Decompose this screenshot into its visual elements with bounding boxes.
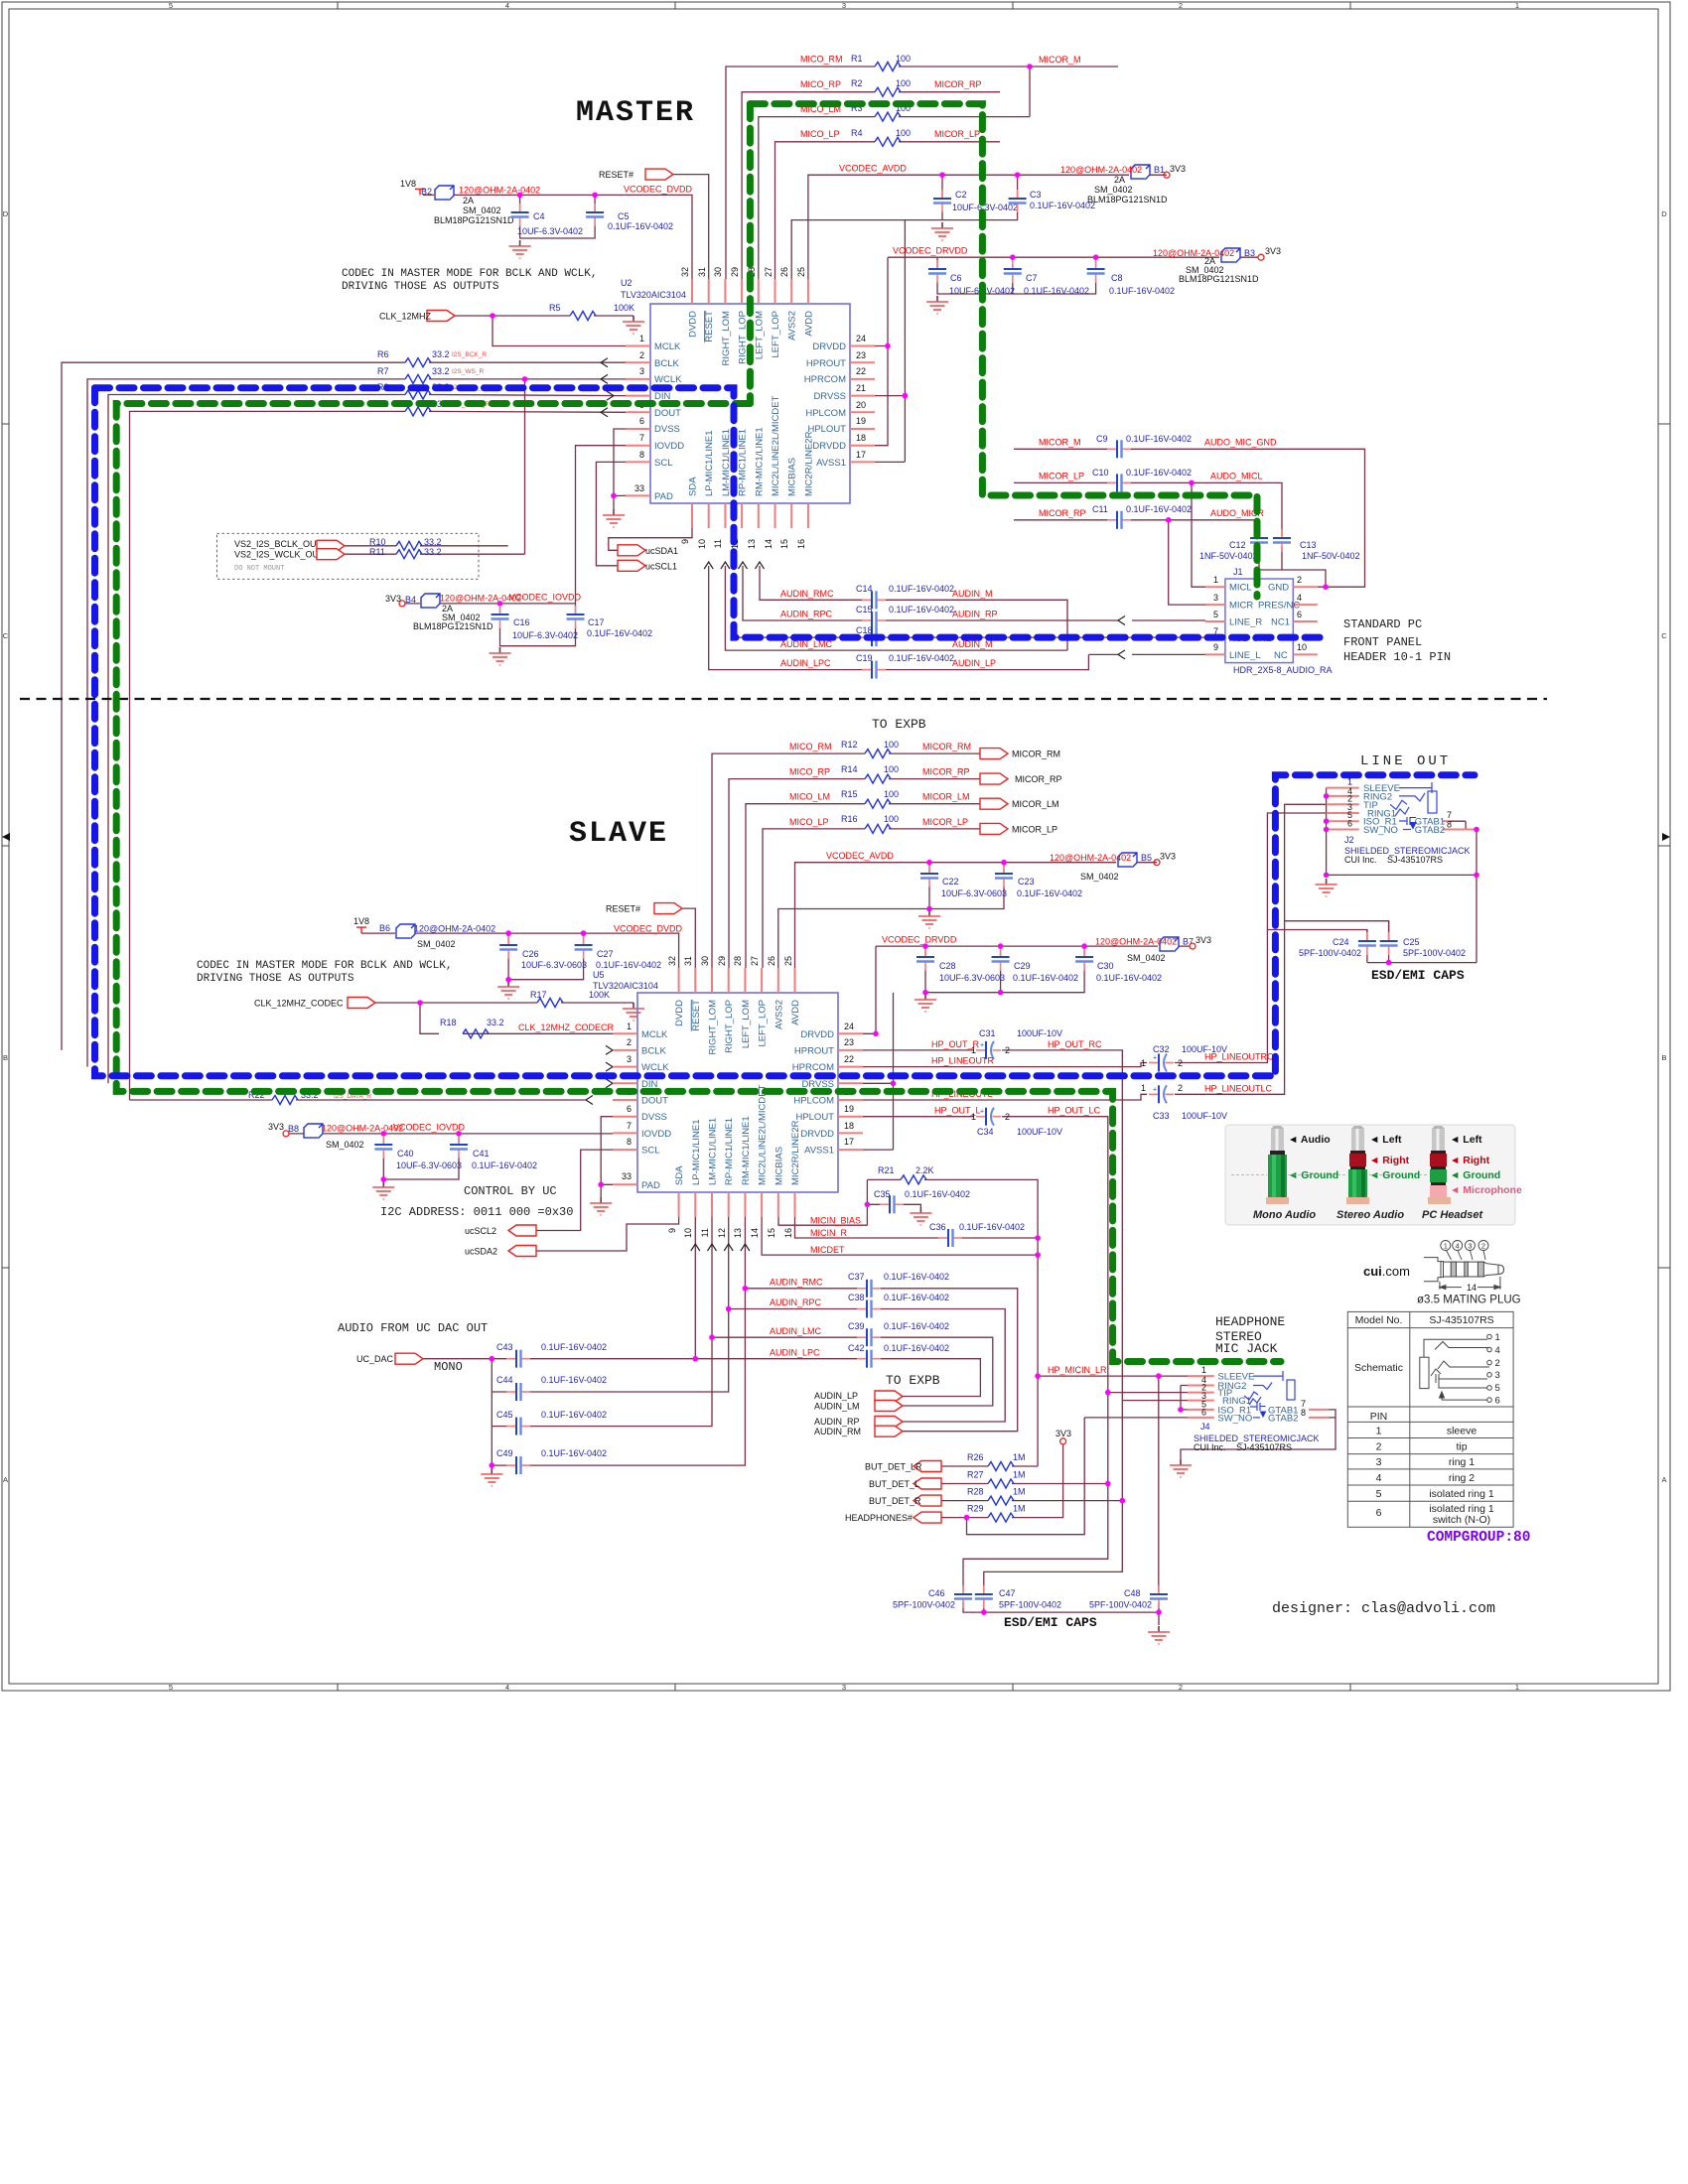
wire R10 R11 VS2 — [342, 546, 525, 554]
svg-text:C48: C48 — [1124, 1588, 1141, 1598]
resistor R3 — [875, 112, 901, 121]
svg-text:120@OHM-2A-0402: 120@OHM-2A-0402 — [1095, 937, 1177, 947]
sheet border frame — [2, 2, 1670, 1691]
svg-text:DVDD: DVDD — [688, 311, 699, 338]
svg-text:16: 16 — [796, 539, 806, 549]
svg-text:5: 5 — [1213, 610, 1218, 619]
capacitor C29 — [992, 948, 1010, 971]
svg-text:R15: R15 — [841, 789, 858, 799]
svg-text:C28: C28 — [939, 961, 956, 971]
svg-text:100UF-10V: 100UF-10V — [1017, 1028, 1062, 1038]
svg-text:0.1UF-16V-0402: 0.1UF-16V-0402 — [541, 1410, 607, 1420]
svg-text:R10: R10 — [369, 537, 386, 547]
svg-text:BCLK: BCLK — [654, 358, 679, 369]
svg-text:LINE OUT: LINE OUT — [1360, 753, 1451, 769]
svg-text:C29: C29 — [1014, 961, 1031, 971]
capacitor C12 — [1250, 529, 1268, 552]
svg-text:FRONT PANEL: FRONT PANEL — [1343, 635, 1422, 649]
jack photos panel — [1225, 1125, 1522, 1225]
svg-text:22: 22 — [844, 1054, 854, 1064]
svg-text:MICOR_RP: MICOR_RP — [1015, 774, 1062, 784]
svg-text:C4: C4 — [533, 211, 545, 221]
svg-text:Mono Audio: Mono Audio — [1253, 1209, 1316, 1221]
svg-text:BCLK: BCLK — [641, 1046, 666, 1057]
svg-text:SM_0402: SM_0402 — [326, 1140, 364, 1150]
svg-text:R28: R28 — [967, 1487, 984, 1497]
svg-text:SM_0402: SM_0402 — [1080, 872, 1119, 882]
svg-text:MICOR_LP: MICOR_LP — [922, 817, 968, 827]
svg-text:5PF-100V-0402: 5PF-100V-0402 — [1089, 1600, 1152, 1610]
svg-text:B2: B2 — [421, 187, 432, 197]
svg-text:MICOR_RP: MICOR_RP — [922, 767, 970, 777]
wire VCODEC_DVDD slave — [361, 933, 679, 968]
svg-text:12: 12 — [717, 1228, 727, 1238]
svg-text:4: 4 — [1456, 1241, 1460, 1250]
svg-text:21: 21 — [856, 383, 866, 393]
svg-text:C40: C40 — [397, 1149, 414, 1159]
svg-text:4: 4 — [505, 1, 509, 10]
svg-text:DRVDD: DRVDD — [800, 1029, 834, 1040]
wire VCODEC_AVDD slave — [795, 863, 1158, 968]
cui mating plug drawing — [1424, 1258, 1504, 1290]
svg-text:C44: C44 — [496, 1375, 513, 1385]
svg-text:2: 2 — [1297, 575, 1302, 585]
svg-text:TLV320AIC3104: TLV320AIC3104 — [621, 290, 686, 300]
wire C28 C29 C30 legs — [863, 946, 1084, 1150]
svg-text:31: 31 — [697, 267, 707, 277]
svg-text:3V3: 3V3 — [1265, 246, 1281, 256]
port RESET# slave — [654, 903, 682, 914]
capacitor C16 — [492, 606, 509, 628]
svg-text:2: 2 — [1179, 1683, 1183, 1692]
svg-text:VCODEC_DRVDD: VCODEC_DRVDD — [882, 935, 957, 945]
ferrite bead B1 — [1131, 165, 1150, 179]
svg-text:1NF-50V-0402: 1NF-50V-0402 — [1302, 551, 1360, 561]
svg-text:B5: B5 — [1141, 853, 1152, 863]
svg-text:19: 19 — [844, 1104, 854, 1114]
port ucSDA1 — [618, 545, 645, 556]
svg-text:MASTER: MASTER — [576, 96, 695, 130]
svg-text:ESD/EMI CAPS: ESD/EMI CAPS — [1004, 1615, 1097, 1630]
svg-text:◄ Right: ◄ Right — [1450, 1155, 1490, 1166]
svg-text:0.1UF-16V-0402: 0.1UF-16V-0402 — [889, 605, 954, 614]
junction dots slave — [873, 1031, 879, 1037]
port CLK_12MHZ_CODEC — [348, 998, 375, 1009]
svg-text:3: 3 — [627, 1054, 632, 1064]
svg-text:NC: NC — [1274, 650, 1288, 661]
svg-text:0.1UF-16V-0402: 0.1UF-16V-0402 — [884, 1321, 949, 1331]
svg-text:SCL: SCL — [641, 1146, 659, 1157]
svg-text:RIGHT_LOP: RIGHT_LOP — [724, 1000, 735, 1053]
wire CLK_12MHZ to R5 and MCLK — [455, 316, 633, 346]
wire UC_DAC C43 row AUDIN_LPC C42 — [423, 1359, 980, 1397]
wire HP_MICIN_LR row — [1038, 1376, 1188, 1592]
capacitor C38 — [857, 1300, 881, 1318]
svg-text:C2: C2 — [955, 190, 967, 200]
svg-text:1: 1 — [971, 1045, 976, 1055]
svg-text:MICO_RP: MICO_RP — [789, 767, 830, 777]
svg-text:◄ Right: ◄ Right — [1369, 1155, 1410, 1166]
svg-text:4: 4 — [1495, 1345, 1500, 1356]
svg-text:SJ-435107RS: SJ-435107RS — [1387, 855, 1443, 865]
svg-text:33: 33 — [622, 1171, 632, 1181]
svg-text:C37: C37 — [848, 1272, 865, 1282]
svg-text:18: 18 — [844, 1121, 854, 1131]
svg-text:10UF-6.3V-0402: 10UF-6.3V-0402 — [517, 226, 583, 236]
svg-text:8: 8 — [639, 450, 644, 460]
svg-text:120@OHM-2A-0402: 120@OHM-2A-0402 — [414, 924, 495, 934]
svg-text:6: 6 — [639, 416, 644, 426]
svg-text:13: 13 — [747, 539, 757, 549]
svg-text:0.1UF-16V-0402: 0.1UF-16V-0402 — [884, 1293, 949, 1302]
svg-text:C31: C31 — [979, 1028, 996, 1038]
svg-text:0.1UF-16V-0402: 0.1UF-16V-0402 — [1030, 201, 1095, 210]
svg-text:AVSS2: AVSS2 — [787, 311, 798, 341]
svg-text:0.1UF-16V-0402: 0.1UF-16V-0402 — [541, 1342, 607, 1352]
svg-text:0.1UF-16V-0402: 0.1UF-16V-0402 — [1126, 468, 1192, 478]
svg-text:120@OHM-2A-0402: 120@OHM-2A-0402 — [1060, 165, 1142, 175]
svg-text:GTAB2: GTAB2 — [1415, 825, 1445, 836]
wire blue dashed route master — [95, 388, 1325, 637]
svg-text:11: 11 — [713, 539, 723, 548]
svg-text:MICO_RM: MICO_RM — [789, 742, 832, 751]
svg-text:0.1UF-16V-0402: 0.1UF-16V-0402 — [541, 1448, 607, 1458]
svg-text:6: 6 — [627, 1104, 632, 1114]
capacitor C6 — [928, 260, 946, 283]
svg-text:R4: R4 — [851, 128, 863, 138]
svg-text:7: 7 — [627, 1121, 632, 1131]
svg-text:MIC JACK: MIC JACK — [1215, 1341, 1278, 1356]
svg-text:◄ Audio: ◄ Audio — [1288, 1134, 1331, 1146]
svg-text:120@OHM-2A-0402: 120@OHM-2A-0402 — [1153, 248, 1234, 258]
svg-text:3: 3 — [1376, 1456, 1382, 1468]
svg-text:C38: C38 — [848, 1293, 865, 1302]
svg-text:C33: C33 — [1153, 1111, 1170, 1121]
svg-text:1: 1 — [1201, 1365, 1206, 1375]
svg-text:ø3.5 MATING PLUG: ø3.5 MATING PLUG — [1417, 1295, 1521, 1306]
svg-text:2: 2 — [627, 1037, 632, 1047]
svg-text:AUDIN_LM: AUDIN_LM — [814, 1402, 860, 1412]
svg-text:VCODEC_DVDD: VCODEC_DVDD — [624, 185, 693, 195]
wire DRVSS AVSS1 tie — [875, 396, 905, 463]
resistor R4 — [875, 137, 901, 146]
svg-text:1M: 1M — [1013, 1470, 1026, 1480]
svg-text:MICOR_RP: MICOR_RP — [934, 79, 982, 89]
svg-text:0.1UF-16V-0402: 0.1UF-16V-0402 — [1013, 973, 1078, 983]
wire R7 row WCLK — [87, 379, 626, 1067]
svg-text:25: 25 — [783, 956, 793, 966]
resistor R5 — [570, 312, 596, 321]
svg-text:GTAB2: GTAB2 — [1268, 1413, 1298, 1424]
svg-text:C13: C13 — [1300, 540, 1317, 550]
ground C6 — [926, 296, 948, 314]
wire C26 C27 legs — [508, 933, 584, 980]
svg-text:26: 26 — [779, 267, 789, 277]
resistor R12 — [865, 750, 891, 758]
wire VCODEC_DRVDD slave — [863, 946, 1190, 1033]
svg-text:CLK_12MHZ_CODEC: CLK_12MHZ_CODEC — [254, 999, 344, 1009]
svg-text:24: 24 — [856, 334, 866, 343]
divider dashed line — [20, 698, 1547, 700]
svg-text:9: 9 — [667, 1228, 677, 1233]
svg-text:sleeve: sleeve — [1447, 1426, 1477, 1437]
ferrite bead B3 — [1221, 248, 1240, 262]
capacitor C3 — [1009, 190, 1027, 212]
svg-text:3V3: 3V3 — [385, 594, 401, 604]
ground C22 — [918, 910, 940, 928]
wire TIP RING1 drop to R27 R28 — [963, 1393, 1122, 1590]
svg-text:5PF-100V-0402: 5PF-100V-0402 — [1299, 948, 1361, 958]
svg-text:R17: R17 — [530, 990, 547, 1000]
svg-text:20: 20 — [856, 400, 866, 410]
capacitor C19 — [862, 661, 886, 679]
resistor R21 — [901, 1175, 926, 1184]
svg-text:33.2: 33.2 — [432, 349, 450, 359]
svg-text:C: C — [3, 631, 9, 640]
svg-text:HPRCOM: HPRCOM — [804, 374, 846, 385]
svg-text:MICO_RM: MICO_RM — [800, 55, 843, 65]
svg-text:0.1UF-16V-0402: 0.1UF-16V-0402 — [905, 1189, 970, 1199]
svg-text:1: 1 — [627, 1022, 632, 1031]
svg-text:C45: C45 — [496, 1410, 513, 1420]
svg-text:2: 2 — [1178, 1083, 1183, 1093]
svg-text:R7: R7 — [377, 366, 389, 376]
svg-text:CODEC IN MASTER MODE FOR BCLK: CODEC IN MASTER MODE FOR BCLK AND WCLK, — [342, 268, 597, 280]
svg-text:BLM18PG121SN1D: BLM18PG121SN1D — [434, 215, 514, 225]
svg-text:B: B — [3, 1053, 8, 1062]
svg-text:PC Headset: PC Headset — [1422, 1209, 1483, 1221]
svg-text:LEFT_LOP: LEFT_LOP — [758, 1000, 769, 1047]
svg-text:AVSS2: AVSS2 — [774, 1000, 784, 1029]
wire VCODEC_IOVDD slave — [289, 1133, 613, 1135]
svg-text:3: 3 — [639, 366, 644, 376]
svg-text:MICO_RP: MICO_RP — [800, 79, 841, 89]
svg-text:designer: clas@advoli.com: designer: clas@advoli.com — [1272, 1600, 1495, 1617]
svg-text:14: 14 — [1467, 1283, 1477, 1293]
model table — [1347, 1311, 1513, 1527]
svg-text:C23: C23 — [1018, 877, 1035, 887]
wire VCODEC_IOVDD row — [405, 603, 576, 605]
svg-text:3: 3 — [1468, 1241, 1472, 1250]
capacitor C46 — [954, 1585, 972, 1608]
svg-text:AVDD: AVDD — [790, 1000, 801, 1025]
wire RESET# to pin31 — [673, 175, 709, 279]
svg-text:0.1UF-16V-0402: 0.1UF-16V-0402 — [472, 1160, 537, 1170]
transistor U5 slave codec IC box — [593, 956, 863, 1238]
svg-text:LINE_L: LINE_L — [1229, 650, 1261, 661]
svg-text:6: 6 — [1376, 1507, 1382, 1519]
svg-text:SW_NO: SW_NO — [1217, 1413, 1252, 1424]
wire VCODEC_AVDD row — [808, 175, 1167, 279]
wire MICIN_BIAS — [778, 1217, 867, 1225]
svg-text:TO EXPB: TO EXPB — [886, 1373, 940, 1388]
svg-text:R16: R16 — [841, 814, 858, 824]
svg-text:2: 2 — [1178, 1058, 1183, 1068]
svg-text:10UF-6.3V-0402: 10UF-6.3V-0402 — [512, 630, 578, 640]
svg-text:3: 3 — [842, 1, 846, 10]
svg-text:MICO_LM: MICO_LM — [789, 792, 830, 802]
svg-text:C16: C16 — [513, 617, 530, 627]
header J1 — [1205, 567, 1333, 675]
wire DVSS PAD gnd — [614, 429, 626, 509]
svg-text:AUDO_MIC_GND: AUDO_MIC_GND — [1204, 438, 1277, 448]
connector J2 line out jack — [1316, 777, 1479, 963]
capacitor C11 — [1107, 511, 1131, 529]
wire C18 row — [734, 636, 1205, 638]
svg-text:DVSS: DVSS — [654, 424, 680, 435]
svg-text:AUDIN_LPC: AUDIN_LPC — [780, 658, 831, 668]
svg-text:AUDIN_LP: AUDIN_LP — [814, 1391, 858, 1401]
svg-text:D: D — [3, 209, 9, 218]
svg-text:DRIVING THOSE AS OUTPUTS: DRIVING THOSE AS OUTPUTS — [197, 973, 354, 985]
svg-text:10UF-6.3V-0603: 10UF-6.3V-0603 — [941, 888, 1007, 898]
ground C40 — [372, 1181, 394, 1199]
svg-text:CODEC IN MASTER MODE FOR BCLK: CODEC IN MASTER MODE FOR BCLK AND WCLK, — [197, 960, 452, 972]
svg-text:MICBIAS: MICBIAS — [787, 458, 798, 496]
ground C49 — [481, 1468, 502, 1486]
resistor R7 — [405, 374, 431, 383]
svg-text:10UF-6.3V-0603: 10UF-6.3V-0603 — [396, 1160, 462, 1170]
svg-text:MICIN_BIAS: MICIN_BIAS — [810, 1216, 861, 1226]
svg-text:J2: J2 — [1344, 835, 1354, 845]
capacitor C18 — [862, 628, 886, 646]
capacitor C5 — [586, 204, 604, 226]
wire C22 C23 legs — [778, 863, 1004, 968]
svg-text:MICOR_LP: MICOR_LP — [934, 129, 980, 139]
svg-text:AUDIN_RPC: AUDIN_RPC — [780, 610, 833, 619]
resistor R16 — [865, 824, 891, 833]
svg-text:33.2: 33.2 — [424, 547, 442, 557]
wire SCL to ucSCL1 — [596, 462, 626, 565]
connector J4 headphone jack — [1084, 1365, 1336, 1477]
wire C16 C17 legs — [500, 604, 576, 646]
svg-text:PIN: PIN — [1370, 1411, 1388, 1423]
capacitor C39 — [857, 1328, 881, 1346]
svg-text:I2C ADDRESS: 0011 000 =0x30: I2C ADDRESS: 0011 000 =0x30 — [380, 1205, 573, 1219]
svg-text:C12: C12 — [1229, 540, 1246, 550]
svg-text:I2S_WS_R: I2S_WS_R — [452, 368, 484, 375]
svg-text:2A: 2A — [1114, 175, 1125, 185]
svg-text:A: A — [3, 1475, 8, 1484]
wire SDA to ucSDA1 — [609, 528, 692, 550]
port ucSCL2 — [508, 1225, 536, 1236]
svg-text:C43: C43 — [496, 1342, 513, 1352]
svg-text:Schematic: Schematic — [1354, 1362, 1403, 1374]
svg-text:◄ Left: ◄ Left — [1450, 1134, 1482, 1146]
svg-text:HEADPHONE: HEADPHONE — [1215, 1314, 1285, 1329]
svg-text:C9: C9 — [1096, 434, 1108, 444]
svg-text:2: 2 — [1005, 1112, 1010, 1122]
svg-text:100: 100 — [884, 789, 899, 799]
wire C46 C47 C48 bottom rail — [963, 1602, 1159, 1625]
resistor R2 — [875, 87, 901, 96]
svg-text:1: 1 — [1141, 1083, 1146, 1093]
svg-text:VCODEC_IOVDD: VCODEC_IOVDD — [509, 593, 582, 603]
svg-text:6: 6 — [1495, 1396, 1500, 1407]
svg-text:GND: GND — [1268, 583, 1289, 594]
svg-text:5PF-100V-0402: 5PF-100V-0402 — [999, 1600, 1061, 1610]
svg-text:DOUT: DOUT — [641, 1096, 668, 1107]
svg-text:cui.com: cui.com — [1363, 1264, 1410, 1279]
svg-text:18: 18 — [856, 433, 866, 443]
port MICOR_RP — [980, 773, 1008, 784]
resistor R29 — [988, 1513, 1014, 1522]
svg-text:CLK_12MHZ_CODECR: CLK_12MHZ_CODECR — [518, 1023, 615, 1032]
svg-text:DRVSS: DRVSS — [813, 391, 846, 402]
svg-text:MCLK: MCLK — [641, 1029, 668, 1040]
svg-text:PRES/NC: PRES/NC — [1258, 601, 1300, 612]
svg-text:HPRCOM: HPRCOM — [792, 1062, 834, 1073]
ground J4 — [1170, 1459, 1192, 1477]
junction dots top rows — [1027, 64, 1033, 69]
svg-text:100: 100 — [896, 78, 911, 88]
svg-text:AUDIN_RP: AUDIN_RP — [814, 1417, 860, 1427]
svg-text:ucSDA2: ucSDA2 — [465, 1247, 497, 1257]
svg-text:2: 2 — [1005, 1045, 1010, 1055]
svg-text:C39: C39 — [848, 1321, 865, 1331]
capacitor C27 — [575, 936, 593, 959]
svg-text:B6: B6 — [379, 923, 390, 933]
svg-text:33.2: 33.2 — [424, 537, 442, 547]
port AUDIN_RP — [875, 1417, 903, 1428]
table schematic glyph — [1420, 1334, 1491, 1402]
svg-text:C: C — [1661, 631, 1667, 640]
svg-text:17: 17 — [856, 450, 866, 460]
svg-text:R6: R6 — [377, 349, 389, 359]
svg-text:100UF-10V: 100UF-10V — [1017, 1127, 1062, 1137]
svg-text:7: 7 — [639, 433, 644, 443]
svg-text:27: 27 — [750, 956, 760, 966]
svg-text:26: 26 — [767, 956, 776, 966]
svg-text:0.1UF-16V-0402: 0.1UF-16V-0402 — [596, 960, 661, 970]
wire C40 C41 legs — [383, 1134, 459, 1179]
port AUDIN_LP — [875, 1391, 903, 1402]
wire C44 C45 C49 left legs — [492, 1359, 535, 1468]
svg-text:4: 4 — [505, 1683, 509, 1692]
plug photo stereo audio — [1288, 1126, 1420, 1221]
port AUDIN_LM — [875, 1401, 903, 1412]
jack symbol J4 — [1244, 1371, 1295, 1418]
svg-text:120@OHM-2A-0402: 120@OHM-2A-0402 — [322, 1124, 403, 1134]
svg-text:LM-MIC1/LINE1: LM-MIC1/LINE1 — [708, 1118, 719, 1185]
wire AUDIN_RPC row C15 — [743, 566, 1205, 620]
svg-text:15: 15 — [767, 1228, 776, 1238]
svg-text:SDA: SDA — [688, 477, 699, 496]
wire AVSS2 to caps bottom — [791, 210, 1017, 462]
ground C4 — [509, 240, 531, 258]
svg-text:0.1UF-16V-0402: 0.1UF-16V-0402 — [608, 221, 673, 231]
port BUT_DET_L — [914, 1478, 941, 1489]
svg-text:ucSDA1: ucSDA1 — [645, 546, 678, 556]
svg-text:AUDIN_LPC: AUDIN_LPC — [770, 1348, 820, 1358]
svg-text:SM_0402: SM_0402 — [1127, 953, 1166, 963]
svg-text:DO NOT MOUNT: DO NOT MOUNT — [234, 565, 284, 573]
port MICOR_LM — [980, 798, 1008, 809]
svg-text:C5: C5 — [618, 211, 630, 221]
svg-text:3V3: 3V3 — [1055, 1429, 1071, 1438]
svg-text:SM_0402: SM_0402 — [463, 205, 501, 215]
svg-text:2A: 2A — [463, 196, 474, 205]
3V3 B5 — [1154, 860, 1160, 866]
svg-text:STANDARD PC: STANDARD PC — [1343, 617, 1422, 631]
wire green dashed route top — [750, 104, 1257, 597]
svg-text:R1: R1 — [851, 54, 863, 64]
capacitor C35 — [880, 1195, 904, 1213]
svg-text:R18: R18 — [440, 1018, 457, 1027]
ground PAD master — [603, 509, 625, 527]
capacitor C42 — [857, 1350, 881, 1368]
svg-text:RM-MIC1/LINE1: RM-MIC1/LINE1 — [741, 1116, 752, 1185]
